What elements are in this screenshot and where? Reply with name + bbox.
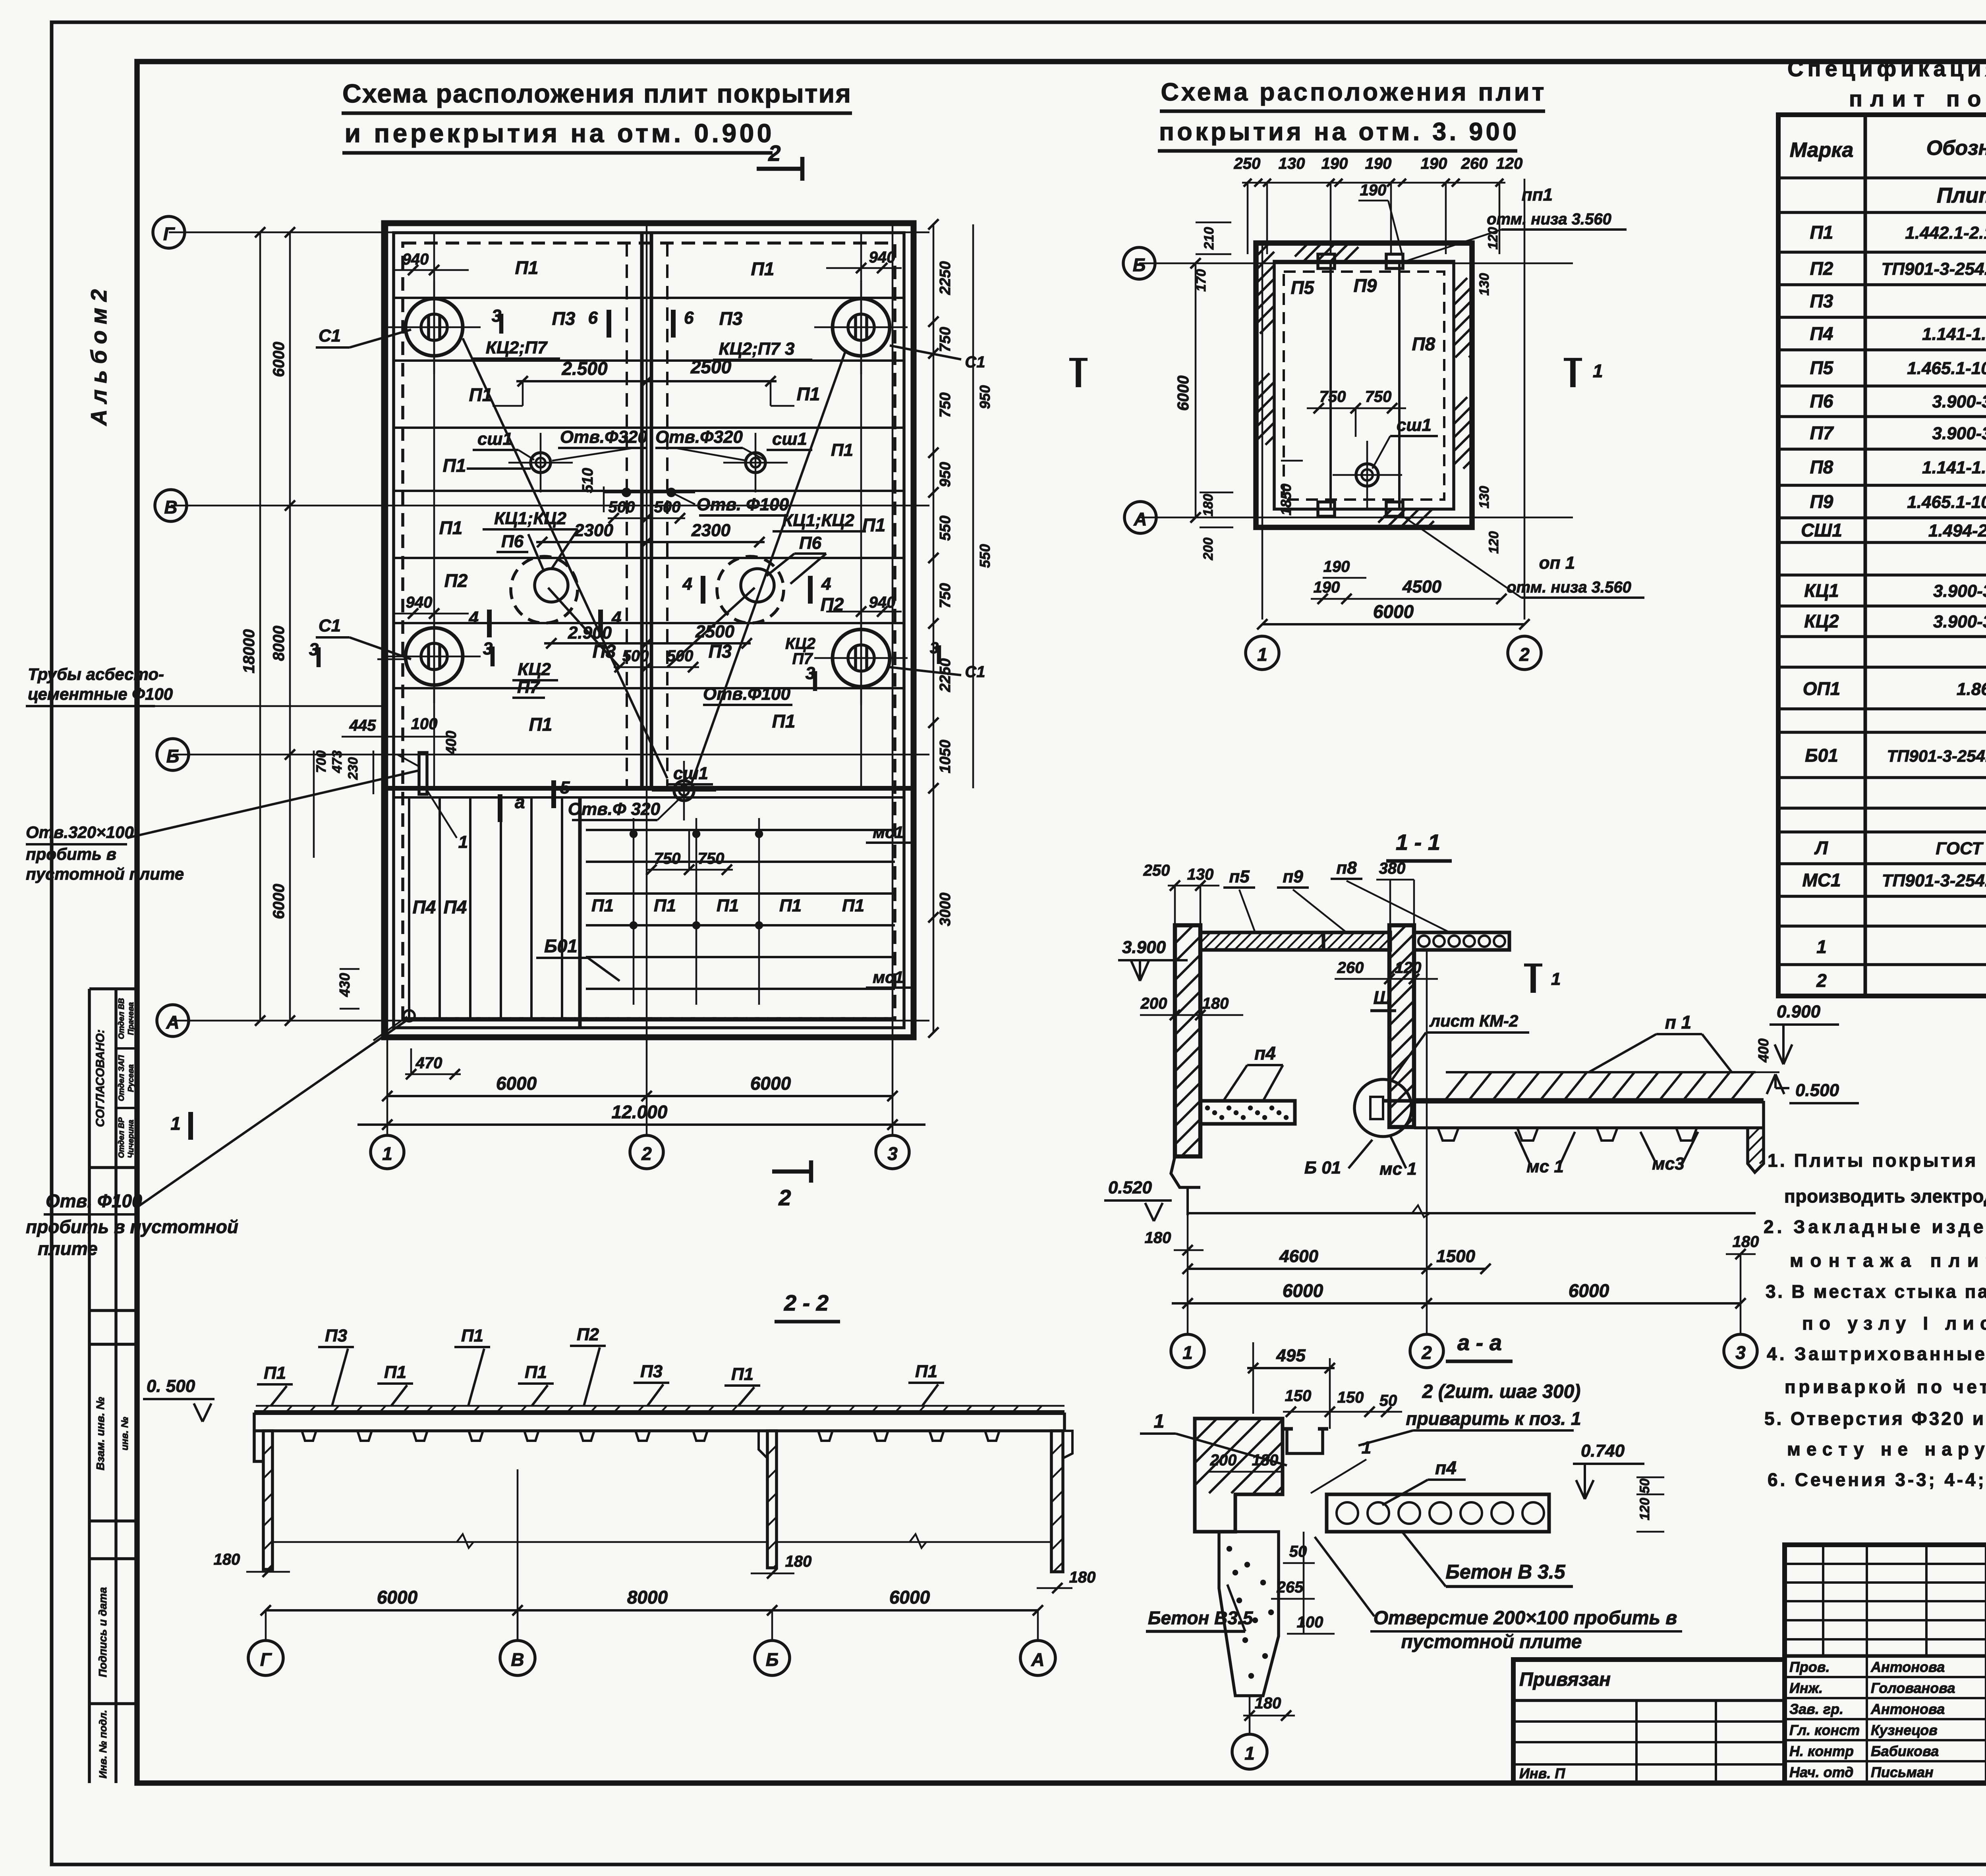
title block main frame xyxy=(1785,1545,1986,1783)
section2-2 centre axis line В xyxy=(517,1469,519,1640)
svg-text:750: 750 xyxy=(937,392,954,417)
left stamp column lines xyxy=(88,989,91,1783)
svg-text:мс 1: мс 1 xyxy=(1526,1157,1564,1176)
svg-text:0. 500: 0. 500 xyxy=(147,1376,195,1396)
svg-text:1500: 1500 xyxy=(1436,1247,1475,1266)
plan2 plate divider lines xyxy=(1329,261,1332,509)
svg-text:пробить в пустотной: пробить в пустотной xyxy=(26,1216,238,1237)
plan1 well bottom-right xyxy=(833,629,890,687)
svg-text:6000: 6000 xyxy=(1283,1280,1323,1301)
svg-text:П1: П1 xyxy=(772,711,796,731)
svg-text:П5: П5 xyxy=(1810,357,1834,378)
svg-text:ОП1: ОП1 xyxy=(1803,678,1840,699)
svg-text:1.465.1-10/82.1-08-01: 1.465.1-10/82.1-08-01 xyxy=(1907,492,1986,512)
svg-text:1.141-1.64 400-01: 1.141-1.64 400-01 xyxy=(1922,324,1986,344)
svg-text:1050: 1050 xyxy=(937,740,954,774)
svg-text:П8: П8 xyxy=(1810,457,1833,477)
plan1 embed detail left xyxy=(419,753,427,794)
svg-text:130: 130 xyxy=(1477,273,1492,296)
plan1 dashed hidden lines flanking centre wall xyxy=(626,243,628,788)
plan1 axis circle 3 xyxy=(876,1135,909,1169)
svg-text:пробить в: пробить в xyxy=(26,845,116,863)
section2-2 break line xyxy=(272,1541,767,1543)
svg-text:3: 3 xyxy=(1735,1342,1746,1363)
svg-text:8000: 8000 xyxy=(627,1587,668,1608)
svg-text:С1: С1 xyxy=(319,326,341,345)
svg-text:Русева: Русева xyxy=(127,1064,135,1092)
plan1 right dim chain xyxy=(933,224,935,1033)
svg-text:0.500: 0.500 xyxy=(1795,1081,1839,1100)
svg-text:П1: П1 xyxy=(751,259,775,279)
plan1 bottom dim line 6000+6000 xyxy=(387,1095,893,1097)
svg-text:В: В xyxy=(164,497,177,517)
svg-text:3.900-3; Вып.7: 3.900-3; Вып.7 xyxy=(1932,424,1986,443)
svg-text:Голованова: Голованова xyxy=(1871,1680,1955,1696)
plan2 axis circle Б xyxy=(1123,247,1155,279)
plan1 lower-left vertical plate lines (П4) xyxy=(408,797,410,1019)
svg-text:Взам. инв. №: Взам. инв. № xyxy=(94,1397,106,1471)
svg-text:Чичерина: Чичерина xyxy=(127,1120,135,1158)
plan1 axis line Г xyxy=(169,232,929,234)
svg-text:210: 210 xyxy=(1202,227,1217,250)
svg-text:Кузнецов: Кузнецов xyxy=(1871,1722,1938,1738)
svg-text:1: 1 xyxy=(1257,644,1267,665)
svg-text:Бетон В 3.5: Бетон В 3.5 xyxy=(1445,1561,1565,1583)
svg-text:5: 5 xyxy=(560,778,570,797)
svg-text:Отв.Ф 320: Отв.Ф 320 xyxy=(568,799,661,819)
plan1 axis line 1 vertical xyxy=(386,223,388,1136)
svg-text:1: 1 xyxy=(1593,361,1603,381)
plan1 axis circle 1 xyxy=(371,1135,404,1169)
plan1 axis line В xyxy=(171,505,929,507)
svg-text:190: 190 xyxy=(1321,155,1348,172)
svg-text:П3: П3 xyxy=(640,1362,663,1381)
svg-text:П5: П5 xyxy=(1291,277,1315,298)
plan1 axis line Б xyxy=(173,754,929,756)
plan1 well bottom-left xyxy=(406,628,463,685)
svg-text:мс3: мс3 xyxy=(1652,1154,1685,1173)
svg-text:Зав. гр.: Зав. гр. xyxy=(1789,1701,1843,1717)
section2-2 axis circle Г xyxy=(248,1641,283,1675)
svg-text:ТП901-3-254.89-АС.И.6.000: ТП901-3-254.89-АС.И.6.000 xyxy=(1887,747,1986,765)
svg-text:180: 180 xyxy=(1252,1451,1279,1469)
svg-text:445: 445 xyxy=(349,717,376,734)
svg-text:500: 500 xyxy=(609,498,635,516)
plan2 wall outer rect xyxy=(1256,243,1472,527)
plan2 bearing pads пп1 top xyxy=(1318,254,1335,268)
plan2 axis circle 1 xyxy=(1246,636,1279,670)
plan1 section mark 2 top xyxy=(757,167,802,171)
svg-text:П1: П1 xyxy=(1810,222,1833,243)
plan2 bottom dim 6000 xyxy=(1262,623,1524,625)
svg-text:3. В местах стыка панелей плит: 3. В местах стыка панелей плиты покрытия… xyxy=(1766,1281,1986,1302)
plan1 tank inner wall line xyxy=(394,233,904,1028)
plan1 tank outer wall xyxy=(384,223,914,1037)
plan1 long leader diagonals xyxy=(463,338,667,778)
plan1 opening сш1 right xyxy=(746,453,765,473)
plan1 axis circle 2 xyxy=(630,1135,663,1169)
svg-text:П1: П1 xyxy=(915,1362,937,1381)
plan1 well top-right (КЦ2;П7) xyxy=(833,299,890,356)
svg-text:Отв.Ф320: Отв.Ф320 xyxy=(560,427,647,447)
section1-1 top slab п5/п9 xyxy=(1200,932,1323,950)
svg-text:КЦ2;П7: КЦ2;П7 xyxy=(486,338,548,357)
svg-text:П4: П4 xyxy=(1810,323,1833,344)
svg-text:Марка: Марка xyxy=(1790,139,1854,162)
svg-text:2 (2шт. шаг 300): 2 (2шт. шаг 300) xyxy=(1422,1381,1581,1402)
svg-text:120: 120 xyxy=(1496,155,1523,172)
svg-text:3.900: 3.900 xyxy=(1122,938,1166,957)
section1-1 left wall footing xyxy=(1186,1187,1189,1215)
svg-text:1: 1 xyxy=(458,832,468,852)
svg-text:Отдел ЗАП: Отдел ЗАП xyxy=(117,1055,126,1101)
svg-text:п8: п8 xyxy=(1336,858,1357,878)
svg-text:П1: П1 xyxy=(797,384,820,404)
svg-text:А л ь б о м 2: А л ь б о м 2 xyxy=(86,289,111,426)
plan2 section mark T left xyxy=(1076,359,1081,387)
svg-text:2300: 2300 xyxy=(574,521,613,540)
detail a-a channel poz.2 xyxy=(1287,1429,1323,1453)
svg-text:1.442.1-2.1 4.00.0-032: 1.442.1-2.1 4.00.0-032 xyxy=(1905,223,1986,243)
svg-text:4600: 4600 xyxy=(1279,1247,1318,1266)
plan1 dashed ring right (КЦ1;КЦ2) xyxy=(717,556,784,623)
svg-text:180: 180 xyxy=(1733,1233,1759,1251)
svg-text:100: 100 xyxy=(1297,1614,1323,1631)
section1-1 axis circle 2 xyxy=(1426,950,1428,1334)
svg-text:500: 500 xyxy=(654,498,681,516)
svg-text:пустотной плите: пустотной плите xyxy=(26,865,184,883)
plan1 hidden edge dashed rectangle xyxy=(403,243,895,1019)
svg-text:470: 470 xyxy=(415,1054,442,1072)
svg-text:940: 940 xyxy=(402,251,429,268)
title block signature rows xyxy=(1785,1676,1986,1678)
svg-text:1: 1 xyxy=(1551,969,1561,989)
svg-text:6000: 6000 xyxy=(1373,601,1414,622)
svg-text:А: А xyxy=(1031,1649,1044,1670)
svg-text:П7: П7 xyxy=(1810,423,1834,443)
svg-text:сш1: сш1 xyxy=(1397,415,1432,435)
svg-text:1.465.1-10/82.1-02-01: 1.465.1-10/82.1-02-01 xyxy=(1907,359,1986,378)
svg-text:2300: 2300 xyxy=(691,521,730,540)
svg-text:Б: Б xyxy=(166,746,180,766)
svg-text:Отв.Ф100: Отв.Ф100 xyxy=(703,684,790,704)
svg-text:П1: П1 xyxy=(461,1326,483,1345)
svg-text:Отв. Ф100: Отв. Ф100 xyxy=(46,1191,142,1211)
section2-2 middle column Б xyxy=(767,1431,777,1568)
svg-text:1: 1 xyxy=(1244,1743,1255,1764)
plan1 opening сш1 left xyxy=(531,453,551,473)
svg-text:230: 230 xyxy=(346,757,361,780)
plan1 right dim chain 2 xyxy=(972,224,974,788)
svg-text:Обозначение: Обозначение xyxy=(1926,137,1986,160)
svg-text:а - а: а - а xyxy=(1457,1330,1502,1355)
svg-text:Н. контр: Н. контр xyxy=(1789,1743,1854,1759)
svg-text:130: 130 xyxy=(1279,155,1305,172)
svg-text:Схема расположения плит: Схема расположения плит xyxy=(1161,78,1544,106)
svg-text:П2: П2 xyxy=(1810,258,1833,279)
svg-text:Гл. конст: Гл. конст xyxy=(1789,1722,1860,1738)
svg-text:1: 1 xyxy=(382,1143,392,1164)
svg-text:180: 180 xyxy=(214,1551,240,1568)
section1-1 long floor slab П1 xyxy=(1414,1098,1764,1104)
section1-1 dim 6000 6000 xyxy=(1172,1302,1741,1305)
svg-text:Бабикова: Бабикова xyxy=(1871,1743,1939,1759)
svg-text:750: 750 xyxy=(698,850,724,867)
svg-text:190: 190 xyxy=(1360,181,1387,199)
svg-text:6000: 6000 xyxy=(1569,1280,1609,1301)
svg-text:150: 150 xyxy=(1337,1389,1364,1406)
section2-2 roof slab xyxy=(254,1410,1064,1415)
svg-text:Отв.320×100: Отв.320×100 xyxy=(26,823,134,841)
plan2 axis line 1 xyxy=(1262,243,1263,620)
svg-text:700: 700 xyxy=(314,751,329,773)
svg-text:монтажа плит п1.: монтажа плит п1. xyxy=(1790,1250,1986,1271)
svg-text:750: 750 xyxy=(654,850,681,867)
detail a-a wall hatched block xyxy=(1195,1419,1283,1532)
plan1 section mark 1 left xyxy=(188,1112,193,1140)
svg-text:750: 750 xyxy=(937,327,954,352)
svg-text:С1: С1 xyxy=(965,663,985,681)
svg-text:Плиты покрытия и перекрыти: Плиты покрытия и перекрытия xyxy=(1937,183,1986,207)
svg-text:3.900-3; Вып.7: 3.900-3; Вып.7 xyxy=(1932,392,1986,411)
svg-text:цементные Ф100: цементные Ф100 xyxy=(28,685,173,703)
svg-text:Б01: Б01 xyxy=(1805,745,1838,766)
plan1 section flags 6 xyxy=(607,310,611,338)
section2-2 axis circle А xyxy=(1020,1641,1055,1675)
svg-text:1: 1 xyxy=(1362,1438,1371,1457)
svg-text:П1: П1 xyxy=(717,896,739,915)
plan1 lower band joint crosses xyxy=(633,818,635,1005)
svg-text:180: 180 xyxy=(785,1553,812,1570)
plan2 bearing pads оп1 bottom xyxy=(1318,502,1335,516)
svg-text:0.900: 0.900 xyxy=(1777,1002,1821,1021)
svg-text:2: 2 xyxy=(1421,1342,1432,1363)
svg-text:2: 2 xyxy=(641,1143,652,1164)
plan2 wall hatch segments xyxy=(1256,243,1269,257)
svg-text:6000: 6000 xyxy=(496,1073,537,1094)
svg-text:0.520: 0.520 xyxy=(1108,1178,1152,1197)
svg-text:Б: Б xyxy=(766,1649,779,1670)
svg-text:3: 3 xyxy=(887,1143,898,1164)
svg-text:плите: плите xyxy=(38,1238,98,1259)
detail a-a hollow slab with round voids xyxy=(1327,1494,1549,1532)
svg-text:П3: П3 xyxy=(552,308,576,329)
svg-text:4: 4 xyxy=(611,608,621,627)
svg-text:пустотной плите: пустотной плите xyxy=(1401,1631,1582,1652)
svg-text:Трубы асбесто-: Трубы асбесто- xyxy=(28,665,164,683)
svg-text:190: 190 xyxy=(1421,155,1447,172)
svg-text:П3: П3 xyxy=(1810,291,1833,311)
spec table grid xyxy=(1778,115,1986,996)
section1-1 bottom line with breaks xyxy=(1188,1212,1756,1214)
svg-text:510: 510 xyxy=(580,468,596,493)
svg-text:Антонова: Антонова xyxy=(1870,1701,1945,1717)
svg-text:12.000: 12.000 xyxy=(612,1102,668,1122)
section2-2 slab ribs xyxy=(302,1431,316,1441)
svg-text:380: 380 xyxy=(1379,860,1406,877)
svg-text:П2: П2 xyxy=(444,570,468,591)
section1-1 axis circle 3 xyxy=(1740,1254,1742,1334)
plan1 left dim chain spans xyxy=(289,232,291,1021)
svg-text:Ш: Ш xyxy=(1373,987,1391,1008)
svg-text:пп1: пп1 xyxy=(1522,185,1553,205)
svg-text:П1: П1 xyxy=(831,440,853,460)
svg-text:180: 180 xyxy=(1145,1229,1171,1247)
svg-text:сш1: сш1 xyxy=(772,429,807,449)
svg-text:Нач. отд: Нач. отд xyxy=(1789,1764,1853,1780)
svg-text:200: 200 xyxy=(1210,1451,1237,1469)
svg-text:2: 2 xyxy=(1816,970,1827,991)
title block: attach table Привязан xyxy=(1513,1660,1785,1783)
svg-text:100: 100 xyxy=(411,715,438,733)
svg-text:750: 750 xyxy=(1365,388,1392,405)
plan1 well joint vertical lines xyxy=(433,233,435,788)
svg-text:КЦ1: КЦ1 xyxy=(1804,580,1839,601)
svg-text:С1: С1 xyxy=(319,616,341,635)
svg-text:3.900-3; вып.7: 3.900-3; вып.7 xyxy=(1933,612,1986,631)
svg-text:2: 2 xyxy=(768,141,780,166)
section1-1 node III circle xyxy=(1354,1079,1412,1137)
svg-text:50: 50 xyxy=(1379,1392,1397,1409)
svg-text:18000: 18000 xyxy=(240,629,258,673)
plan2 axis circle А xyxy=(1124,502,1156,533)
svg-text:П3: П3 xyxy=(709,641,732,662)
plan1 leader С1 top-right xyxy=(890,345,961,359)
svg-text:473: 473 xyxy=(330,751,345,774)
svg-text:а: а xyxy=(515,791,525,812)
svg-text:п5: п5 xyxy=(1229,867,1250,886)
svg-text:производить электродами Э-42 (: производить электродами Э-42 (ГОСТ 9467-… xyxy=(1784,1186,1986,1206)
detail a-a concrete wedge below xyxy=(1219,1532,1279,1696)
svg-text:2500: 2500 xyxy=(690,357,732,377)
svg-text:1: 1 xyxy=(170,1113,181,1134)
svg-text:приварить к поз. 1: приварить к поз. 1 xyxy=(1406,1408,1581,1429)
plan1 axis line 3 vertical xyxy=(892,223,894,1136)
svg-text:200: 200 xyxy=(1201,538,1216,561)
svg-text:150: 150 xyxy=(1285,1387,1312,1405)
svg-text:430: 430 xyxy=(336,973,353,997)
svg-text:КЦ1;КЦ2: КЦ1;КЦ2 xyxy=(782,511,854,530)
svg-text:приваркой по четырем сторонам,: приваркой по четырем сторонам, катет шва… xyxy=(1785,1376,1986,1397)
plan1 section flags 4 xyxy=(487,610,492,637)
svg-text:6000: 6000 xyxy=(750,1073,791,1094)
plan2 hidden dashed rect xyxy=(1284,272,1444,500)
svg-text:6000: 6000 xyxy=(270,884,288,919)
section2-2 right column А xyxy=(1051,1431,1063,1572)
svg-text:Привязан: Привязан xyxy=(1519,1669,1611,1690)
svg-text:Инв. № подл.: Инв. № подл. xyxy=(97,1710,109,1779)
svg-text:п 1: п 1 xyxy=(1665,1012,1691,1033)
svg-text:инв. №: инв. № xyxy=(120,1417,130,1450)
section2-2 left column xyxy=(263,1431,272,1569)
svg-text:Пров.: Пров. xyxy=(1789,1659,1830,1675)
svg-text:180: 180 xyxy=(1201,494,1216,517)
plan1 left dim chain 18000 xyxy=(259,232,261,1021)
svg-text:П7: П7 xyxy=(517,677,541,697)
svg-text:4: 4 xyxy=(682,574,692,594)
plan2 axis line А xyxy=(1140,517,1573,519)
section1-1 T1 flag xyxy=(1530,965,1536,993)
svg-text:6: 6 xyxy=(588,308,598,328)
svg-text:отм. низа 3.560: отм. низа 3.560 xyxy=(1487,210,1611,228)
svg-text:260: 260 xyxy=(1461,155,1488,172)
svg-text:190: 190 xyxy=(1365,155,1392,172)
svg-text:1 - 1: 1 - 1 xyxy=(1396,830,1440,855)
svg-text:П4: П4 xyxy=(444,897,467,917)
svg-text:Л: Л xyxy=(1814,838,1828,858)
svg-text:190: 190 xyxy=(1323,558,1350,575)
svg-text:200: 200 xyxy=(1140,995,1167,1012)
section1-1 plate п8 with holes xyxy=(1414,932,1509,950)
svg-text:П2: П2 xyxy=(577,1325,599,1344)
plan2 opening сш1 xyxy=(1356,464,1378,486)
plan1 centre wall line (axis 2) xyxy=(640,233,644,788)
svg-text:2 - 2: 2 - 2 xyxy=(784,1290,829,1315)
detail a-a dim 495 xyxy=(1247,1367,1335,1369)
svg-text:Отверстие 200×100 пробить в: Отверстие 200×100 пробить в xyxy=(1374,1608,1677,1629)
svg-text:180: 180 xyxy=(1069,1569,1096,1586)
svg-text:Прачева: Прачева xyxy=(127,1002,135,1035)
plan1 lower dashed hidden line xyxy=(403,1017,895,1020)
svg-text:130: 130 xyxy=(1477,486,1492,509)
plan2 left dim 6000 xyxy=(1195,263,1197,517)
section1-1 slab ribs xyxy=(1438,1128,1459,1141)
svg-text:2: 2 xyxy=(1519,644,1530,665)
svg-text:Г: Г xyxy=(260,1649,272,1670)
svg-text:Б 01: Б 01 xyxy=(1304,1158,1341,1177)
svg-text:ТП901-3-254.89-АС.И.8.010: ТП901-3-254.89-АС.И.8.010 xyxy=(1882,871,1986,890)
section1-1 hatched plates П1 above slab xyxy=(1446,1072,1468,1099)
svg-text:сш1: сш1 xyxy=(673,764,708,783)
section1-1 right wall end xyxy=(1748,1101,1764,1172)
svg-text:Инв. П: Инв. П xyxy=(1519,1765,1565,1781)
svg-text:8000: 8000 xyxy=(270,626,288,661)
svg-text:Подпись и дата: Подпись и дата xyxy=(97,1587,109,1677)
section2-2 axis circle В xyxy=(500,1641,535,1675)
section2-2 axis circle Б xyxy=(755,1641,790,1675)
svg-text:п9: п9 xyxy=(1283,867,1303,886)
svg-text:130: 130 xyxy=(1187,866,1214,883)
svg-text:Б: Б xyxy=(1133,255,1146,275)
svg-text:1.869.1-1: 1.869.1-1 xyxy=(1957,679,1986,699)
svg-text:180: 180 xyxy=(1255,1695,1281,1712)
svg-text:П1: П1 xyxy=(654,896,676,915)
svg-text:2.500: 2.500 xyxy=(561,358,608,379)
svg-text:С1: С1 xyxy=(965,353,985,371)
svg-text:1: 1 xyxy=(1154,1411,1165,1432)
svg-text:Отв.Ф320: Отв.Ф320 xyxy=(655,427,743,447)
svg-text:П1: П1 xyxy=(731,1365,753,1384)
svg-text:1: 1 xyxy=(1816,936,1827,957)
svg-text:1850: 1850 xyxy=(1278,484,1294,515)
plan1 axis circle Г xyxy=(153,216,185,248)
svg-text:250: 250 xyxy=(1143,862,1170,879)
svg-text:Антонова: Антонова xyxy=(1870,1659,1945,1675)
plan1 section mark 2 bottom xyxy=(772,1170,811,1174)
section1-1 slab п9 part xyxy=(1323,932,1390,950)
svg-text:п4: п4 xyxy=(1435,1457,1457,1478)
svg-text:Отдел ВВ: Отдел ВВ xyxy=(117,998,126,1039)
svg-text:550: 550 xyxy=(937,515,954,540)
section1-1 floor slab п4 with speckles xyxy=(1200,1101,1295,1124)
svg-text:3.900-3; вып.7: 3.900-3; вып.7 xyxy=(1933,581,1986,601)
svg-text:мс1: мс1 xyxy=(873,968,904,986)
svg-text:оп 1: оп 1 xyxy=(1539,553,1575,573)
svg-text:В: В xyxy=(511,1649,524,1670)
svg-text:50: 50 xyxy=(1637,1478,1652,1494)
plan1 lower band divider xyxy=(578,797,582,1028)
svg-text:940: 940 xyxy=(869,594,896,611)
